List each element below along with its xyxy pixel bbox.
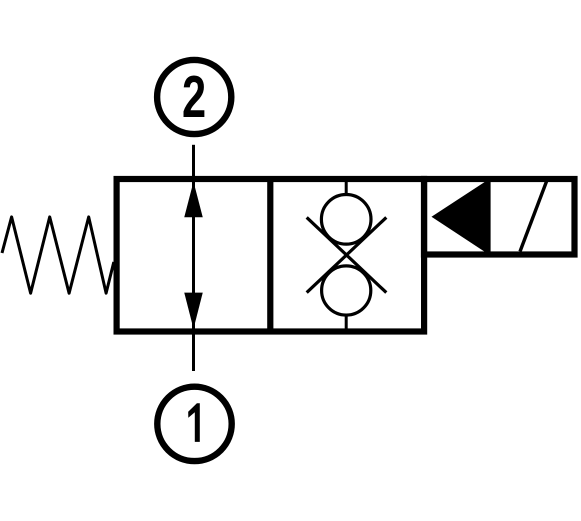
valve body envelope (two positions) xyxy=(117,179,425,332)
solenoid actuator triangle xyxy=(432,182,485,252)
valve body center divider xyxy=(267,179,273,332)
arrowhead down xyxy=(184,293,203,329)
right position top stub wire xyxy=(345,179,348,195)
right position bottom stub wire xyxy=(345,314,348,332)
arrowhead up xyxy=(184,182,203,218)
port circle 1 xyxy=(157,387,231,461)
solenoid slash xyxy=(520,182,547,252)
port label 1 xyxy=(188,403,200,442)
port circle 2 xyxy=(157,60,231,134)
svg-text:2: 2 xyxy=(182,64,206,130)
check ball upper circle xyxy=(321,195,371,245)
solenoid box xyxy=(424,179,575,255)
blocked-path X line (tr-bl) xyxy=(307,217,387,292)
wire stem from circle 2 to valve body xyxy=(192,145,195,179)
blocked-path X line (tl-br) xyxy=(307,217,387,292)
check ball lower circle xyxy=(322,266,371,315)
wire stem from valve body to circle 1 xyxy=(192,332,195,372)
return spring xyxy=(2,217,114,293)
solenoid box divider xyxy=(484,179,490,255)
flow path arrow line (left position) xyxy=(192,182,195,329)
